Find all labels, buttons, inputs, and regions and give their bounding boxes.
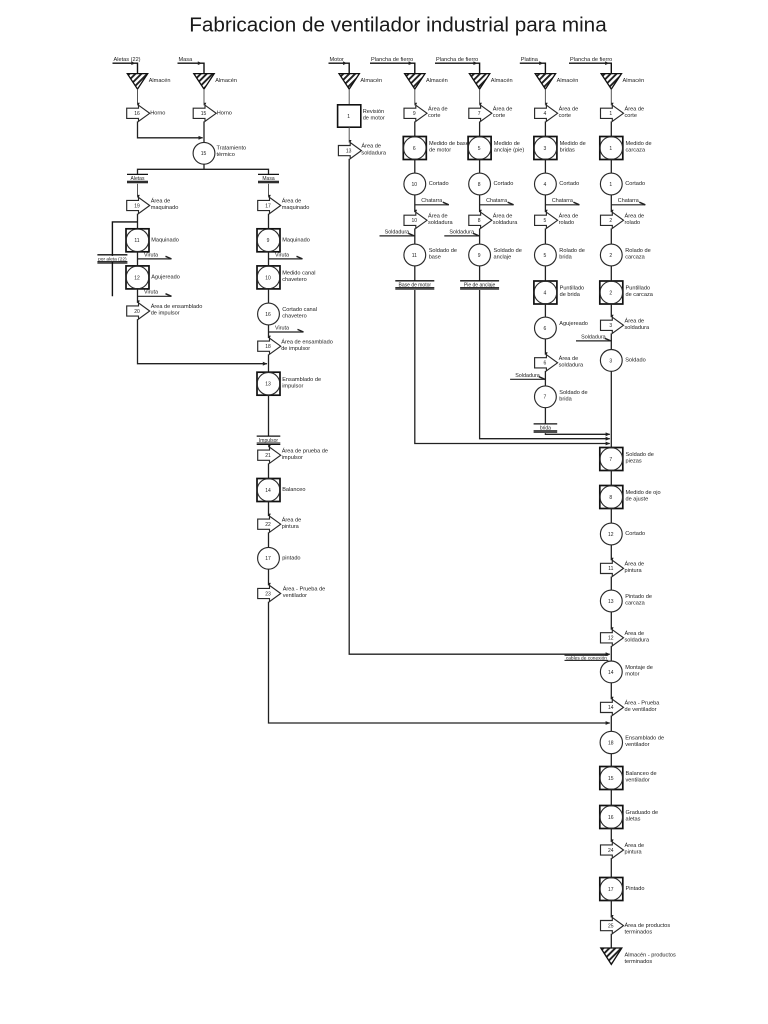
wire op 10 to operation 16 [268, 289, 270, 303]
svg-text:Área de: Área de [625, 105, 645, 112]
junction arrow motor into main line [606, 652, 611, 656]
svg-text:Plancha de fierro: Plancha de fierro [371, 57, 413, 63]
svg-text:Área de: Área de [625, 630, 645, 637]
transport 3 Area de soldadura (carcaza) [601, 317, 624, 333]
transport 18 Area de ensamblado de impulsor [258, 338, 281, 354]
wire transport 3 to operation 3 [610, 333, 612, 349]
wire op 9 to op 10 [268, 252, 270, 266]
wire pie de anclaje down/right to main join [480, 290, 610, 439]
svg-text:20: 20 [134, 309, 140, 315]
junction arrow base de motor into main line [606, 442, 611, 446]
wire operation 14 to transport 14 [610, 683, 612, 700]
scrap Chatarra after operation 10 [415, 204, 449, 206]
svg-text:motor: motor [625, 672, 639, 678]
svg-text:brida: brida [559, 255, 572, 261]
svg-text:4: 4 [544, 182, 547, 188]
svg-text:de motor: de motor [429, 148, 451, 154]
wire transport 2 to operation 2 [610, 228, 612, 244]
svg-text:Graduado de: Graduado de [626, 810, 659, 816]
svg-text:corte: corte [559, 113, 571, 119]
svg-text:8: 8 [478, 218, 481, 224]
svg-text:1: 1 [609, 146, 612, 152]
svg-text:13: 13 [608, 599, 614, 605]
svg-text:Pintado de: Pintado de [625, 594, 652, 600]
svg-text:23: 23 [265, 591, 271, 597]
wire aletas branch down to join impulsor [138, 319, 267, 364]
wire transport 10 to operation 11 [414, 228, 416, 244]
wire combined op 4 to operation 6 [544, 304, 546, 317]
scrap Viruta after op 11 [138, 258, 172, 260]
combined operation 8 Medido de ojo de ajuste [600, 486, 623, 509]
svg-text:Viruta: Viruta [144, 252, 158, 258]
wire impulsor marker to transport 21 [268, 445, 270, 447]
wire impulsor branch down/right to main join [269, 602, 610, 723]
svg-text:térmico: térmico [217, 152, 235, 158]
svg-text:4: 4 [544, 290, 547, 296]
junction arrow into masa line [199, 136, 204, 140]
wire operation 16 to transport 18 [268, 325, 270, 338]
svg-text:Ensamblado de: Ensamblado de [625, 736, 664, 742]
svg-text:24: 24 [608, 848, 614, 854]
svg-text:Soldado de: Soldado de [559, 390, 587, 396]
wire combined op 5 to operation 8 [479, 160, 481, 174]
svg-text:pintura: pintura [625, 568, 643, 574]
svg-text:Soldado de: Soldado de [626, 452, 654, 458]
wire transport 7 to combined op 5 [479, 121, 481, 136]
svg-text:ventilador: ventilador [626, 778, 650, 784]
svg-text:Soldadura: Soldadura [385, 230, 410, 236]
operation 10 Cortado [404, 173, 426, 195]
inspection 1 Revision de motor [338, 105, 361, 127]
svg-text:13: 13 [346, 148, 352, 154]
wire operation 6 to transport 6 [544, 339, 546, 355]
svg-text:corte: corte [428, 113, 440, 119]
svg-text:aletas: aletas [626, 817, 641, 823]
svg-text:Balanceo: Balanceo [282, 487, 305, 493]
svg-text:14: 14 [265, 488, 271, 494]
wire op 11 to op 12 [137, 252, 139, 266]
svg-text:impulsor: impulsor [282, 383, 303, 389]
wire transport 5 to operation 5 [544, 228, 546, 244]
svg-text:soldadura: soldadura [493, 220, 518, 226]
wire inspection 1 to transport 13 [348, 127, 350, 142]
svg-text:Área de ensamblado: Área de ensamblado [151, 303, 203, 310]
svg-text:ventilador: ventilador [283, 593, 307, 599]
wire operation 2 to combined op 2 [610, 266, 612, 281]
wire transport 6 to operation 7 [544, 371, 546, 386]
wire operation 13 to transport 12 [610, 612, 612, 630]
material input Soldadura (carcaza) [576, 340, 611, 342]
svg-text:Puntillado: Puntillado [560, 286, 585, 292]
transport 1 Area de corte [601, 105, 624, 121]
svg-text:Área de: Área de [625, 561, 645, 568]
svg-text:18: 18 [608, 740, 614, 746]
transport 11 Area de pintura (carcaza) [601, 560, 624, 576]
operation 13 Pintado de carcaza [600, 590, 622, 612]
wire transport 19 to op 11 [137, 214, 139, 229]
wire operation 11 to base de motor marker [414, 266, 416, 281]
material input Soldadura (pie de anclaje) [444, 235, 479, 237]
svg-text:Chatarra: Chatarra [552, 198, 573, 204]
part marker brida [534, 423, 558, 425]
svg-text:Agujereado: Agujereado [559, 321, 588, 327]
wire operation 4 to transport 5 [544, 195, 546, 212]
svg-text:21: 21 [265, 453, 271, 459]
storage triangle almacen motor [339, 74, 359, 90]
svg-text:7: 7 [478, 111, 481, 117]
svg-text:10: 10 [412, 218, 418, 224]
svg-text:piezas: piezas [626, 459, 642, 465]
svg-text:Área de: Área de [559, 105, 579, 112]
svg-text:Tratamiento: Tratamiento [217, 146, 247, 152]
transport 22 Area de pintura [258, 516, 281, 532]
combined operation 6 Medido de base de motor [403, 137, 426, 160]
svg-text:base: base [429, 255, 441, 261]
svg-text:9: 9 [413, 111, 416, 117]
storage triangle almacen (Platina x=545.4) [535, 74, 555, 90]
svg-text:pintura: pintura [625, 850, 643, 856]
svg-text:5: 5 [478, 146, 481, 152]
junction arrow aletas into impulsor line [263, 362, 268, 366]
wire brida down/right to main join [545, 433, 609, 434]
svg-text:16: 16 [134, 111, 140, 117]
operation 18 Ensamblado de ventilador [600, 731, 622, 753]
wire triangle to transport 16 [137, 89, 139, 105]
wire transport 4 to combined op 3 [544, 121, 546, 136]
svg-text:Viruta: Viruta [275, 325, 289, 331]
svg-text:5: 5 [544, 218, 547, 224]
scrap Chatarra after operation 8 [480, 204, 514, 206]
combined operation 4 Puntillado de brida [534, 281, 557, 304]
svg-text:Área de: Área de [428, 105, 448, 112]
wire transport 14 to operation 18 (through impulsor join) [610, 716, 612, 732]
wire transport 8 to operation 9 [479, 228, 481, 244]
repeat bracket por aleta (22) [112, 222, 137, 296]
junction arrow pie de anclaje into main line [606, 437, 611, 441]
svg-text:17: 17 [265, 203, 271, 209]
svg-text:Área de: Área de [625, 212, 645, 219]
svg-text:15: 15 [201, 111, 207, 117]
svg-text:11: 11 [412, 253, 417, 259]
combined operation 2 Puntillado de carcaza [600, 281, 623, 304]
wire triangle to transport 4 [544, 89, 546, 105]
wire transport 25 to final storage [610, 934, 612, 948]
svg-text:25: 25 [608, 923, 614, 929]
svg-text:maquinado: maquinado [151, 205, 179, 211]
svg-text:Área de: Área de [282, 516, 302, 523]
wire transport 18 to op 13 [268, 354, 270, 372]
wire transport 21 to op 14 [268, 463, 270, 478]
storage triangle almacen (Plancha de fierro x=611.3) [601, 74, 621, 90]
svg-text:pintado: pintado [282, 555, 300, 561]
svg-text:15: 15 [201, 151, 207, 157]
transport 7 Area de corte [469, 105, 492, 121]
svg-text:8: 8 [609, 495, 612, 501]
svg-text:de ventilador: de ventilador [625, 707, 657, 713]
svg-text:Maquinado: Maquinado [151, 237, 179, 243]
svg-text:1: 1 [609, 111, 612, 117]
wire combined op 1 to operation 1 [610, 160, 612, 174]
storage triangle almacen (Plancha de fierro x=479.6) [469, 74, 489, 90]
svg-text:Pintado: Pintado [626, 886, 645, 892]
operation 11 Soldado de base [404, 244, 426, 266]
combined operation 3 Medido de bridas [534, 137, 557, 160]
svg-text:soldadura: soldadura [428, 220, 453, 226]
svg-text:soldadura: soldadura [559, 363, 584, 369]
svg-text:Área de: Área de [493, 212, 513, 219]
operation 2 Rolado de carcaza [600, 244, 622, 266]
svg-text:de carcaza: de carcaza [626, 292, 654, 298]
svg-text:terminados: terminados [625, 929, 653, 935]
wire operation 15 to split [203, 164, 205, 169]
svg-text:Soldado: Soldado [625, 357, 646, 363]
svg-text:pintura: pintura [282, 524, 300, 530]
transport 4 Area de corte [535, 105, 558, 121]
wire op 14 to transport 22 [268, 502, 270, 517]
combined operation 9 Maquinado (masa) [257, 229, 280, 252]
wire transport 16 to junction [138, 121, 203, 137]
svg-text:4: 4 [544, 111, 547, 117]
svg-text:soldadura: soldadura [625, 325, 650, 331]
svg-text:6: 6 [544, 361, 547, 367]
operation 3 Soldado [600, 350, 622, 372]
svg-text:3: 3 [609, 358, 612, 364]
svg-text:Rolado de: Rolado de [559, 248, 585, 254]
wire operation 3 down to combined op 7 (through joins) [610, 371, 612, 447]
svg-text:Chatarra: Chatarra [618, 198, 639, 204]
svg-text:Área de: Área de [428, 212, 448, 219]
svg-text:Viruta: Viruta [275, 252, 289, 258]
operation 4 Cortado [535, 173, 557, 195]
svg-text:de impulsor: de impulsor [151, 311, 180, 317]
transport 9 Area de corte [404, 105, 427, 121]
svg-text:Almacén: Almacén [215, 78, 237, 84]
wire combined op 3 to operation 4 [544, 160, 546, 174]
transport 20 Area de ensamblado de impulsor [127, 303, 150, 319]
transport 19 Area de maquinado [127, 197, 150, 213]
transport 12 Area de soldadura (main) [601, 630, 624, 646]
svg-text:Área de productos: Área de productos [625, 922, 671, 929]
svg-text:16: 16 [265, 312, 271, 318]
wire operation 7 to brida marker [544, 408, 546, 424]
svg-text:10: 10 [412, 182, 418, 188]
part marker Base de motor [395, 280, 434, 282]
svg-text:Puntillado: Puntillado [626, 286, 651, 292]
wire combined op 16 to transport 24 [610, 829, 612, 842]
svg-text:Horno: Horno [150, 110, 165, 116]
svg-text:Soldadura: Soldadura [581, 335, 606, 341]
svg-text:Medido de: Medido de [626, 141, 652, 147]
svg-text:Soldado de: Soldado de [494, 248, 522, 254]
svg-text:impulsor: impulsor [282, 455, 303, 461]
svg-text:Viruta: Viruta [144, 290, 158, 296]
transport 5 Área de rolado [535, 212, 558, 228]
svg-text:Agujereado: Agujereado [151, 274, 180, 280]
wire combined op 8 to operation 12 [610, 509, 612, 524]
svg-text:Medido canal: Medido canal [282, 271, 315, 277]
svg-text:maquinado: maquinado [282, 205, 310, 211]
wire operation 12 to transport 11 [610, 545, 612, 560]
svg-text:3: 3 [544, 146, 547, 152]
svg-text:Área de: Área de [151, 198, 171, 205]
svg-text:22: 22 [265, 522, 271, 528]
svg-text:9: 9 [478, 253, 481, 259]
svg-text:Área de prueba de: Área de prueba de [282, 447, 328, 454]
svg-text:Fabricacion de ventilador indu: Fabricacion de ventilador industrial par… [189, 14, 607, 37]
svg-text:18: 18 [265, 344, 271, 350]
transport 17 Area de maquinado [258, 197, 281, 213]
svg-text:12: 12 [608, 532, 614, 538]
svg-text:14: 14 [608, 670, 614, 676]
transport 23 Area - Prueba de ventilador [258, 585, 281, 601]
scrap Chatarra after operation 1 [611, 204, 645, 206]
svg-text:1: 1 [609, 182, 612, 188]
storage triangle almacen aletas [127, 74, 147, 90]
wire base de motor down/right to main join [415, 290, 610, 444]
svg-text:Almacén: Almacén [149, 78, 171, 84]
svg-text:carcaza: carcaza [625, 601, 645, 607]
wire operation 18 to combined op 15 [610, 754, 612, 767]
split line to aletas and masa branches [138, 169, 269, 174]
svg-text:Plancha de fierro: Plancha de fierro [436, 57, 478, 63]
svg-text:2: 2 [609, 290, 612, 296]
svg-text:de impulsor: de impulsor [281, 346, 310, 352]
svg-text:Maquinado: Maquinado [282, 237, 310, 243]
combined operation 1 Medido de carcaza [600, 137, 623, 160]
svg-text:Área de: Área de [282, 198, 302, 205]
svg-text:Medido de: Medido de [494, 141, 520, 147]
transport 21 Area de prueba de impulsor [258, 447, 281, 463]
svg-text:corte: corte [493, 113, 505, 119]
wire combined op 2 to transport 3 [610, 304, 612, 317]
svg-text:Montaje de: Montaje de [625, 665, 653, 671]
operation 16 Cortado canal chavetero [258, 303, 280, 325]
svg-text:anclaje (pie): anclaje (pie) [494, 148, 525, 154]
material input Soldadura (base de motor) [380, 235, 415, 237]
storage triangle almacen (Plancha de fierro x=414.8) [405, 74, 425, 90]
wire transport 24 to combined op 17 [610, 858, 612, 877]
svg-text:16: 16 [608, 815, 614, 821]
svg-text:7: 7 [544, 395, 547, 401]
svg-text:Área de: Área de [559, 355, 579, 362]
svg-text:Rolado de: Rolado de [625, 248, 651, 254]
wire combined op 6 to operation 10 [414, 160, 416, 174]
transport 15 Horno [193, 105, 216, 121]
scrap Viruta after op 9 [269, 258, 303, 260]
svg-text:17: 17 [608, 887, 614, 893]
svg-text:carcaza: carcaza [625, 255, 645, 261]
svg-text:soldadura: soldadura [361, 150, 386, 156]
transport 14 Area - Prueba de ventilador [601, 699, 624, 715]
svg-text:corte: corte [625, 113, 637, 119]
transport 13 Area de soldadura (motor) [338, 143, 361, 159]
wire marker to transport 19 [137, 184, 139, 198]
wire combined op 15 to combined op 16 [610, 790, 612, 806]
svg-text:Área de: Área de [361, 143, 381, 150]
wire transport 17 to op 9 [268, 214, 270, 229]
repeat marker por aleta (22) [97, 254, 127, 256]
wire motor down/right to main join (cables) [349, 159, 610, 655]
svg-text:Área de: Área de [625, 842, 645, 849]
combined operation 15 Balanceo de ventilador [600, 767, 623, 790]
wire op 13 down to impulsor marker [268, 395, 270, 436]
operation 5 Rolado de brida [535, 244, 557, 266]
svg-text:12: 12 [608, 636, 614, 642]
svg-text:13: 13 [265, 382, 271, 388]
svg-text:Chatarra: Chatarra [486, 198, 507, 204]
combined operation 7 Soldado de piezas [600, 448, 623, 471]
svg-text:Área - Prueba: Área - Prueba [625, 700, 661, 707]
svg-text:Revisión: Revisión [363, 109, 384, 115]
svg-text:terminados: terminados [625, 959, 653, 965]
svg-text:rolado: rolado [559, 220, 575, 226]
svg-text:Cortado canal: Cortado canal [282, 307, 317, 313]
combined operation 13 Ensamblado de impulsor [257, 372, 280, 395]
branch marker Masa [258, 173, 279, 175]
wire combined op 17 to transport 25 [610, 901, 612, 918]
svg-text:19: 19 [134, 203, 140, 209]
svg-text:15: 15 [608, 776, 614, 782]
svg-text:Cortado: Cortado [494, 181, 514, 187]
transport 25 Area de productos terminados [601, 918, 624, 934]
svg-text:Área - Prueba de: Área - Prueba de [283, 586, 326, 593]
svg-text:Almacén: Almacén [426, 78, 448, 84]
svg-text:Medido de base: Medido de base [429, 141, 469, 147]
wire combined op 7 to combined op 8 [610, 471, 612, 486]
wire transport 22 to operation 17 [268, 532, 270, 547]
svg-text:Medido de: Medido de [560, 141, 586, 147]
wire triangle to transport 7 [479, 89, 481, 105]
svg-text:chavetero: chavetero [282, 313, 307, 319]
transport 6 Area de soldadura (brida) [535, 355, 558, 371]
svg-text:6: 6 [544, 326, 547, 332]
operation 9 Soldado de anclaje [469, 244, 491, 266]
operation 15 Tratamiento termico [193, 142, 215, 164]
wire op 12 to transport 20 [137, 289, 139, 303]
svg-text:Cortado: Cortado [559, 181, 579, 187]
svg-text:10: 10 [265, 275, 271, 281]
svg-text:ventilador: ventilador [625, 742, 649, 748]
svg-text:Cortado: Cortado [625, 181, 645, 187]
wire transport 11 to operation 13 [610, 577, 612, 591]
svg-text:Cortado: Cortado [429, 181, 449, 187]
operation 7 Soldado de brida [535, 386, 557, 408]
svg-text:Área de: Área de [625, 317, 645, 324]
transport 8 Área de soldadura [469, 212, 492, 228]
wire operation 5 to combined op 4 [544, 266, 546, 281]
junction arrow brida into main line [606, 432, 611, 436]
svg-text:soldadura: soldadura [625, 638, 650, 644]
wire operation 10 to transport 10 [414, 195, 416, 212]
wire operation 8 to transport 8 [479, 195, 481, 212]
transport 10 Área de soldadura [404, 212, 427, 228]
svg-text:Soldado de: Soldado de [429, 248, 457, 254]
wire transport 12 to operation 14 (through cables join) [610, 646, 612, 661]
svg-text:Área de: Área de [559, 212, 579, 219]
svg-text:de motor: de motor [363, 116, 385, 122]
wire triangle to transport 1 [610, 89, 612, 105]
svg-text:6: 6 [413, 146, 416, 152]
svg-text:Almacén: Almacén [360, 78, 382, 84]
svg-text:Soldadura: Soldadura [449, 230, 474, 236]
svg-text:9: 9 [267, 238, 270, 244]
svg-text:11: 11 [134, 238, 139, 244]
svg-text:12: 12 [134, 275, 140, 281]
svg-text:Soldadura: Soldadura [515, 373, 540, 379]
wire operation 17 to transport 23 [268, 569, 270, 585]
combined operation 5 Medido de anclaje (pie) [468, 137, 491, 160]
scrap Viruta after operation 16 [269, 331, 304, 333]
